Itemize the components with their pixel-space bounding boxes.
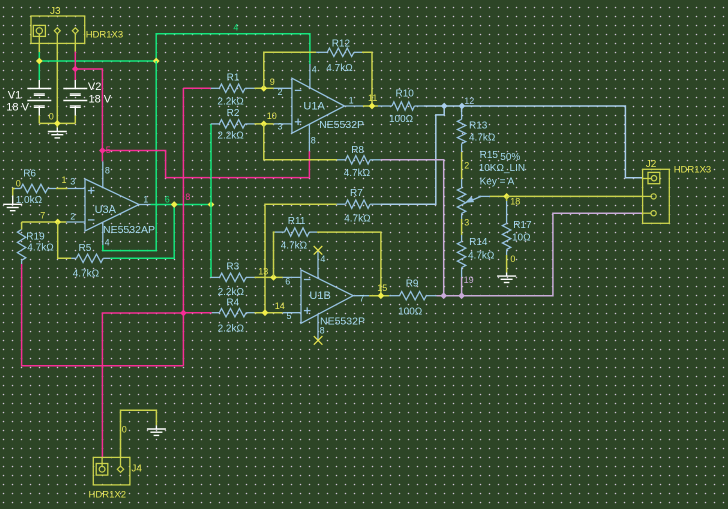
R3 left lead	[211, 276, 220, 278]
R10 left lead	[378, 105, 392, 107]
svg-text:2.2kΩ: 2.2kΩ	[217, 96, 244, 107]
wire net18 yellow to J2 pin2	[507, 195, 643, 197]
U1A pin 1 output lead	[345, 105, 364, 107]
svg-text:R13: R13	[469, 120, 488, 131]
svg-text:9: 9	[270, 77, 275, 87]
svg-text:J4: J4	[131, 463, 142, 474]
svg-text:R6: R6	[23, 168, 36, 179]
svg-text:4: 4	[320, 254, 325, 264]
R13 bottom lead	[461, 144, 463, 152]
resistor R12	[327, 48, 354, 56]
svg-text:4.7kΩ: 4.7kΩ	[281, 240, 308, 251]
svg-text:8: 8	[311, 135, 316, 145]
svg-text:1: 1	[143, 194, 148, 204]
wire J3 pin3 stub down	[74, 43, 76, 51]
U1B pin 7 output lead	[353, 295, 369, 297]
svg-text:R4: R4	[226, 298, 239, 309]
R3 right lead	[246, 276, 254, 278]
R4 right lead	[246, 312, 254, 314]
R12 left lead	[316, 51, 327, 53]
R4 left lead	[212, 312, 220, 314]
R13 top lead	[461, 106, 463, 119]
R5 right lead	[103, 257, 110, 259]
junction net14	[262, 309, 269, 316]
op-amp U3A triangle	[85, 179, 139, 231]
svg-text:6: 6	[285, 276, 290, 286]
wire net12 blue to J2 pin1	[424, 106, 642, 178]
junction ground rail	[54, 120, 61, 127]
svg-text:4: 4	[233, 22, 238, 32]
svg-text:4.7kΩ: 4.7kΩ	[73, 269, 100, 280]
wire net4 green down to U3A pin4	[103, 61, 156, 251]
R11 left lead	[275, 231, 285, 233]
svg-text:J3: J3	[50, 6, 61, 17]
svg-text:U3A: U3A	[95, 204, 117, 216]
junction net6 at R5 branch	[171, 201, 178, 208]
R15 bottom lead	[461, 213, 463, 219]
svg-text:R19: R19	[26, 231, 45, 242]
svg-text:R3: R3	[226, 261, 239, 272]
svg-text:14: 14	[275, 301, 285, 311]
svg-text:2.2kΩ: 2.2kΩ	[218, 323, 245, 334]
U1A pin 4 supply lead	[309, 64, 311, 88]
svg-text:4.7kΩ: 4.7kΩ	[469, 132, 496, 143]
svg-text:7: 7	[40, 210, 45, 220]
svg-text:R7: R7	[350, 188, 363, 199]
resistor R2	[219, 120, 245, 128]
junction net7	[54, 219, 61, 226]
svg-text:0: 0	[510, 254, 515, 264]
wire net14 yellow R4 to U1B plus	[255, 312, 283, 314]
junction net11	[369, 103, 376, 110]
wire net12 blue down to R7 right	[381, 106, 445, 204]
svg-text:8: 8	[185, 192, 190, 202]
R17 top lead	[506, 201, 508, 224]
svg-text:J2: J2	[646, 159, 657, 170]
junction net12 right	[459, 103, 466, 110]
svg-text:R1: R1	[227, 72, 240, 83]
svg-text:R12: R12	[332, 38, 351, 49]
wire net6 green vertical R2 to R3	[210, 124, 212, 278]
R9 left lead	[389, 295, 399, 297]
svg-text:100Ω: 100Ω	[398, 306, 423, 317]
resistor R14 vertical	[457, 242, 465, 268]
connector J2 HDR1X3 box	[643, 169, 670, 223]
wire net8 pink main vertical	[182, 88, 184, 366]
svg-text:R8: R8	[351, 145, 364, 156]
wire net7 down to R5 left	[58, 222, 72, 258]
svg-text:0: 0	[122, 424, 127, 434]
wire net18 yellow wiper segment	[490, 195, 507, 197]
svg-text:2: 2	[464, 160, 469, 170]
U1A pin 2 inverting lead	[274, 87, 292, 89]
op-amp U1B triangle	[301, 270, 353, 323]
U1B pin 8 lead no connect	[317, 315, 319, 341]
resistor R10	[392, 102, 414, 110]
R6 left lead	[15, 188, 21, 190]
wire net8 pink R1 left branch	[183, 87, 211, 89]
svg-text:5: 5	[287, 311, 292, 321]
wire J3 pin2 down to ground rail	[56, 43, 58, 123]
wire net13 yellow R3 to U1B minus	[255, 276, 283, 278]
resistor R1	[219, 84, 245, 92]
svg-text:10: 10	[267, 111, 277, 121]
wire net10 yellow R2 to U1A plus	[255, 123, 274, 125]
U1A pin 8 supply lead	[308, 124, 310, 151]
svg-text:8: 8	[320, 325, 325, 335]
svg-text:2.2kΩ: 2.2kΩ	[218, 287, 245, 298]
R17 bottom lead	[506, 250, 508, 256]
R1 right lead	[245, 87, 254, 89]
svg-text:0: 0	[49, 111, 54, 121]
wire net11 yellow R12 to U1A output	[362, 52, 372, 106]
resistor R5	[76, 254, 103, 262]
U1A pin 3 noninverting lead	[274, 123, 292, 125]
svg-text:R15: R15	[480, 150, 499, 161]
svg-text:4.7kΩ: 4.7kΩ	[468, 250, 495, 261]
svg-text:U1A: U1A	[303, 101, 325, 113]
R2 right lead	[245, 123, 254, 125]
wire net19 lavender R14 bottom	[461, 277, 463, 296]
potentiometer R15 body	[457, 188, 481, 214]
no-connect X on U1B pin 4	[314, 246, 323, 255]
svg-text:7: 7	[359, 293, 364, 303]
junction net8	[180, 310, 187, 317]
wire net0 yellow R17 to ground	[506, 255, 508, 273]
svg-text:4.7kΩ: 4.7kΩ	[344, 213, 371, 224]
svg-text:R17: R17	[513, 220, 532, 231]
R5 left lead	[71, 257, 76, 259]
resistor R19 vertical	[17, 230, 25, 261]
svg-text:HDR1X3: HDR1X3	[674, 165, 712, 176]
R8 right lead	[370, 159, 381, 161]
wire net8 pink to R4 left	[183, 312, 211, 314]
wire net1 yellow R6 to U3A plus input	[56, 188, 67, 190]
svg-text:0: 0	[16, 178, 21, 188]
svg-text:R5: R5	[79, 243, 92, 254]
wire net0 yellow J4 pin2 to ground	[121, 410, 157, 457]
wire net14 yellow R7 to U1B plus column	[265, 204, 337, 313]
svg-text:V2: V2	[88, 81, 101, 93]
svg-text:NE5532P: NE5532P	[319, 119, 364, 131]
wire net15 yellow R11 to U1B output	[317, 232, 381, 296]
svg-text:R11: R11	[288, 216, 306, 227]
svg-text:4.7kΩ: 4.7kΩ	[326, 63, 353, 74]
svg-text:R14: R14	[469, 237, 488, 248]
R2 left lead	[211, 123, 219, 125]
wire net10 yellow down to R8 left	[264, 124, 337, 160]
svg-text:NE5532P: NE5532P	[320, 315, 365, 327]
wire net18 yellow down to R17	[506, 196, 508, 201]
R15 top lead	[461, 179, 463, 188]
wire net5 pink over to supply column	[75, 69, 102, 161]
R11 right lead	[309, 231, 317, 233]
U3A pin 4 supply lead	[102, 222, 104, 245]
junction net19 right	[458, 292, 465, 299]
svg-text:2: 2	[70, 211, 75, 221]
wire net15 yellow U1B output	[369, 295, 389, 297]
U1B pin 5 noninverting lead	[283, 312, 301, 314]
junction net12 left	[441, 103, 448, 110]
svg-text:V1: V1	[8, 89, 21, 101]
battery V2	[63, 80, 87, 116]
resistor R9	[400, 292, 427, 300]
svg-text:18 V: 18 V	[6, 102, 29, 114]
svg-text:4: 4	[105, 237, 110, 247]
svg-text:10Ω: 10Ω	[512, 232, 531, 243]
R14 bottom lead	[461, 268, 463, 277]
U3A pin 1 output lead	[139, 204, 151, 206]
svg-text:15: 15	[377, 283, 387, 293]
svg-text:HDR1X2: HDR1X2	[89, 489, 127, 500]
R14 top lead	[461, 235, 463, 242]
U3A pin 3 noninverting input lead	[67, 188, 85, 190]
resistor R8	[346, 156, 371, 164]
R19 bottom lead	[21, 260, 23, 264]
connector J4 HDR1X2 box	[93, 457, 130, 485]
svg-text:1: 1	[349, 95, 354, 105]
svg-text:R10: R10	[396, 88, 415, 99]
wire net0 to ground at R6	[13, 189, 15, 196]
junction net10	[260, 121, 267, 128]
svg-text:2.2kΩ: 2.2kΩ	[217, 130, 244, 141]
R7 left lead	[337, 203, 346, 205]
svg-text:50%: 50%	[500, 152, 520, 163]
R1 left lead	[211, 87, 219, 89]
U1B pin 6 inverting lead	[283, 276, 301, 278]
svg-text:18 V: 18 V	[89, 93, 112, 105]
wire net8 pink bottom loop to R19	[22, 264, 184, 366]
resistor R6	[21, 184, 48, 192]
wire net19 lavender R9 to J2 pin3	[437, 213, 643, 296]
svg-text:NE5532AP: NE5532AP	[103, 224, 155, 236]
ground symbol at J4	[147, 425, 166, 435]
U1B pin 4 lead no connect	[317, 250, 319, 278]
wire J3 pin1 to net4 junction	[38, 43, 40, 52]
svg-text:8: 8	[105, 165, 110, 175]
wire net4 green V1 top	[38, 52, 40, 80]
wire net4 green riser and top rail to U1A pin4	[156, 34, 310, 64]
wire battery bottoms ground rail	[39, 116, 75, 128]
junction net15	[378, 292, 385, 299]
svg-text:1: 1	[62, 175, 67, 185]
resistor R3	[220, 273, 247, 281]
svg-text:3: 3	[70, 176, 75, 186]
svg-text:19: 19	[464, 275, 474, 285]
wire net11 yellow output segment	[363, 105, 378, 107]
svg-text:13: 13	[258, 266, 268, 276]
svg-text:10KΩ_LIN: 10KΩ_LIN	[479, 163, 525, 174]
wire net5 pink to U1A pin8	[102, 151, 309, 178]
svg-text:HDR1X3: HDR1X3	[86, 30, 124, 41]
svg-text:6: 6	[165, 194, 170, 204]
svg-text:2: 2	[278, 87, 283, 97]
junction net4 at V1	[36, 58, 43, 65]
svg-text:4: 4	[312, 64, 317, 74]
junction net13	[270, 274, 277, 281]
R6 right lead	[48, 188, 56, 190]
no-connect X on U1B pin 8	[314, 336, 323, 345]
junction net4 riser	[153, 58, 160, 65]
resistor R7	[346, 200, 371, 208]
wire net7 corner to R19 top	[21, 222, 23, 230]
svg-text:Key = A: Key = A	[480, 177, 515, 188]
svg-text:11: 11	[368, 93, 377, 103]
wire net7 yellow to U3A minus input	[22, 221, 67, 223]
svg-text:4.7kΩ: 4.7kΩ	[27, 242, 54, 253]
wire net3 yellow R15 to R14	[461, 219, 463, 235]
junction net9	[260, 85, 267, 92]
wire net19 lavender R8 down column	[381, 160, 444, 296]
svg-text:R2: R2	[227, 108, 240, 119]
wire net2 yellow R13 to R15	[461, 152, 463, 179]
ground symbol under R17	[497, 273, 516, 283]
svg-text:12: 12	[464, 96, 474, 106]
R8 left lead	[337, 159, 346, 161]
wire net6 green R5 to U3A output	[110, 205, 174, 259]
wire net8 pink to J4 pin1	[102, 313, 183, 457]
svg-text:100Ω: 100Ω	[389, 114, 414, 125]
R9 right lead	[426, 295, 436, 297]
connector J3 HDR1X3 box	[31, 16, 85, 43]
svg-text:3: 3	[278, 121, 283, 131]
ground symbol at R6	[3, 196, 22, 211]
svg-text:18: 18	[510, 196, 520, 206]
svg-text:4.7kΩ: 4.7kΩ	[344, 168, 371, 179]
junction net18	[503, 193, 510, 200]
junction net5 supply column	[99, 147, 106, 154]
wire net6 green U3A output	[151, 204, 212, 206]
U3A pin 8 supply lead	[102, 161, 104, 187]
ground symbol under batteries	[48, 128, 67, 138]
wire net4 green horizontal rail	[39, 60, 156, 62]
resistor R11	[285, 228, 310, 236]
resistor R13 vertical	[457, 119, 465, 143]
op-amp U1A triangle	[292, 78, 345, 133]
R7 right lead	[370, 203, 381, 205]
R12 right lead	[354, 51, 362, 53]
battery V1	[27, 80, 51, 116]
wire net5 pink J3 pin3 to V2 top	[74, 52, 76, 80]
svg-text:U1B: U1B	[309, 290, 330, 302]
wire net9 yellow up to R12 left	[264, 52, 316, 88]
R10 right lead	[414, 105, 424, 107]
wire net13 yellow R11 to minus junction	[274, 232, 275, 277]
junction net19 left	[440, 292, 447, 299]
resistor R4	[219, 309, 246, 317]
junction net6 at R2 R3 branch	[208, 201, 215, 208]
svg-text:3: 3	[464, 217, 469, 227]
wire net9 yellow R1 to U1A minus	[255, 87, 274, 89]
resistor R17 vertical	[502, 224, 510, 250]
R15 wiper lead	[478, 195, 490, 197]
svg-text:R9: R9	[406, 278, 419, 289]
junction net5 at V2	[72, 66, 79, 73]
U3A pin 2 inverting input lead	[66, 221, 85, 223]
